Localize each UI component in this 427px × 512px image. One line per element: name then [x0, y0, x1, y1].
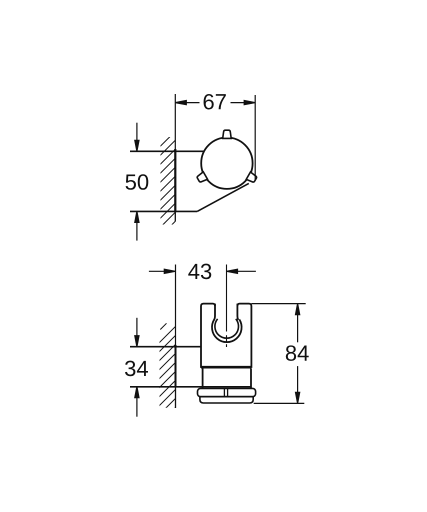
dimension 50 upper arrow	[135, 123, 139, 241]
dimension 34 upper arrow	[135, 318, 139, 417]
wall line (front view)	[175, 265, 177, 348]
tab top (top view)	[196, 130, 257, 183]
dimension 34 lower arrow	[136, 389, 138, 417]
separator thick line (front view)	[201, 366, 251, 369]
bracket top edge (top view)	[130, 150, 204, 152]
cradle inner arc (front view)	[215, 319, 239, 338]
collar split marks (front view)	[223, 389, 225, 396]
cradle outer arc (front view)	[212, 319, 242, 342]
holder circle (top view)	[201, 138, 252, 189]
mounting arm (front view)	[130, 347, 251, 387]
hatch tick top (front view)	[160, 323, 166, 329]
wall hatch (front view)	[157, 322, 180, 426]
tab lower-right (top view)	[246, 172, 257, 183]
dimension text 50	[126, 174, 149, 190]
wall line (top view)	[174, 94, 176, 151]
dimension 67 line + arrows	[175, 101, 255, 105]
U-notch sides (front view)	[214, 304, 238, 320]
tab lower-left (top view)	[196, 172, 207, 183]
bracket bottom edge (top view)	[130, 210, 197, 212]
dimension 43 line + arrows	[149, 269, 256, 273]
dimension text 84	[286, 345, 309, 361]
dimension 67 extension right	[254, 95, 256, 181]
dimension text 34	[125, 361, 148, 377]
lower body (front view)	[203, 369, 251, 389]
dimension 84 extension top	[251, 303, 305, 305]
center line (front view)	[226, 265, 228, 348]
holder body (front view)	[201, 304, 251, 367]
collar ring lower (front view)	[200, 397, 253, 403]
dimension text 43	[188, 264, 211, 280]
dimension 50 lower arrow	[136, 214, 138, 241]
dimension text 67	[204, 94, 226, 110]
dimension 84 line + arrows	[296, 304, 300, 404]
bracket diagonal edge (top view)	[197, 183, 249, 211]
dimension 84 extension bottom	[254, 402, 305, 404]
wall hatch (top view)	[158, 129, 178, 239]
collar ring upper (front view)	[198, 388, 256, 396]
